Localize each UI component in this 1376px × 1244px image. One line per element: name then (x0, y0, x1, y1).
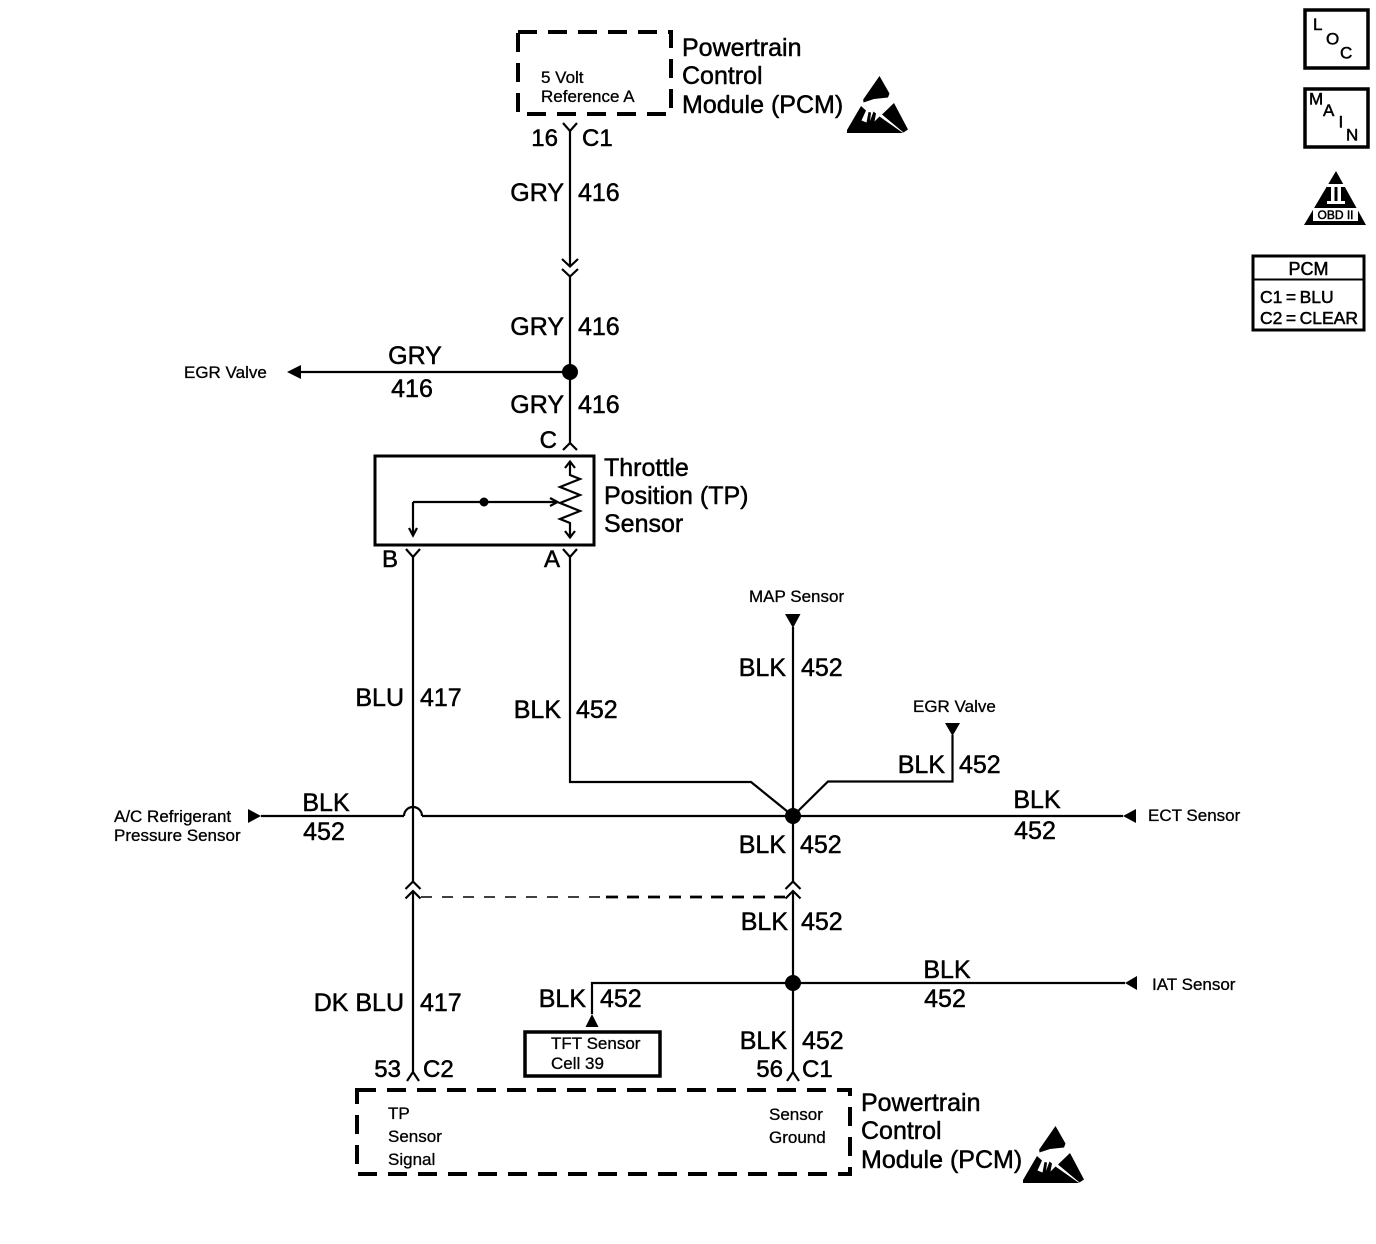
arrow to ECT sensor (1123, 809, 1136, 823)
svg-text:452: 452 (801, 654, 843, 682)
svg-text:416: 416 (578, 313, 620, 341)
svg-text:C2 = CLEAR: C2 = CLEAR (1260, 308, 1358, 328)
label GRY 416 (horizontal) (388, 342, 442, 403)
svg-text:BLU: BLU (355, 684, 404, 712)
svg-text:BLK: BLK (302, 789, 350, 817)
wire BLK 452 from pin A (570, 557, 793, 816)
svg-text:416: 416 (578, 179, 620, 207)
wire break chevrons top (562, 259, 578, 277)
arrow from MAP sensor (785, 614, 801, 628)
svg-text:GRY: GRY (510, 179, 564, 207)
svg-text:Powertrain: Powertrain (682, 34, 802, 62)
svg-text:GRY: GRY (510, 391, 564, 419)
arrow to IAT sensor (1125, 976, 1137, 990)
node: splice junction GRY (562, 364, 578, 380)
wire BLK 452 bus left (261, 815, 404, 817)
svg-text:PCM: PCM (1289, 259, 1329, 279)
svg-text:Ground: Ground (769, 1128, 826, 1147)
wire GRY 416 segment 2 (569, 276, 571, 372)
svg-text:ECT Sensor: ECT Sensor (1148, 806, 1241, 825)
label A/C Refrigerant Pressure Sensor (114, 807, 241, 845)
label BLK 452 (TFT) (539, 985, 642, 1013)
svg-text:Powertrain: Powertrain (861, 1089, 981, 1117)
label BLK 452 (ECT) (1013, 786, 1061, 845)
wire hop over BLU 417 (404, 807, 422, 816)
label BLK 452 (above IAT splice) (741, 908, 843, 936)
svg-text:452: 452 (800, 831, 842, 859)
svg-text:C1: C1 (802, 1056, 833, 1083)
PCM connector legend (1253, 256, 1364, 330)
svg-text:TP: TP (388, 1104, 410, 1123)
svg-text:16: 16 (531, 125, 558, 152)
svg-text:EGR Valve: EGR Valve (184, 363, 267, 382)
svg-text:Position (TP): Position (TP) (604, 482, 748, 510)
svg-text:C1 = BLU: C1 = BLU (1260, 287, 1334, 307)
wire BLK 452 from MAP sensor (792, 627, 794, 816)
svg-text:452: 452 (303, 818, 345, 846)
svg-text:OBD II: OBD II (1317, 208, 1353, 222)
svg-text:O: O (1326, 30, 1339, 49)
label TP Sensor Signal (388, 1104, 442, 1169)
svg-text:Pressure Sensor: Pressure Sensor (114, 826, 241, 845)
TP sensor box (375, 456, 594, 545)
connector pin 16 C1 (531, 123, 612, 152)
wire BLU 417 from pin B (412, 557, 414, 882)
label Throttle Position (TP) Sensor (604, 454, 748, 538)
connector pin 53 C2 (374, 1056, 453, 1083)
label Powertrain Control Module (PCM) bottom (861, 1089, 1022, 1174)
wire BLK 452 to IAT sensor (793, 982, 1125, 984)
svg-text:BLK: BLK (539, 985, 587, 1013)
svg-text:452: 452 (1014, 817, 1056, 845)
svg-text:C: C (1340, 44, 1352, 63)
svg-text:Module (PCM): Module (PCM) (682, 91, 843, 119)
OBD II symbol (1304, 171, 1366, 225)
label BLK 452 (EGR) (898, 751, 1001, 779)
label: Powertrain Control Module (PCM) top (682, 34, 843, 119)
svg-text:Sensor: Sensor (604, 510, 683, 538)
svg-text:MAP Sensor: MAP Sensor (749, 587, 844, 606)
svg-text:A: A (544, 546, 560, 573)
label GRY 416 (1) (510, 179, 619, 207)
svg-text:452: 452 (802, 1027, 844, 1055)
wire GRY 416 segment 3 (569, 372, 571, 443)
connector pin A (544, 546, 577, 573)
label BLK 452 (A/C) (302, 789, 350, 846)
label GRY 416 (3) (510, 391, 619, 419)
svg-text:N: N (1346, 126, 1358, 145)
svg-text:C1: C1 (582, 125, 613, 152)
connector pin C (540, 427, 577, 454)
dashed continuation link (421, 896, 785, 898)
LOC inset box (1305, 10, 1368, 68)
svg-text:416: 416 (391, 375, 433, 403)
svg-text:EGR Valve: EGR Valve (913, 697, 996, 716)
label BLK 452 (IAT) (923, 956, 971, 1013)
svg-text:452: 452 (600, 985, 642, 1013)
svg-text:BLK: BLK (898, 751, 946, 779)
label BLK 452 (pin A wire) (514, 696, 618, 724)
svg-text:452: 452 (959, 751, 1001, 779)
wire BLK 452 down from main splice (792, 816, 794, 882)
wire break chevrons right (786, 882, 801, 899)
label BLK 452 (pin 56) (740, 1027, 844, 1055)
svg-text:Control: Control (861, 1117, 942, 1145)
svg-text:417: 417 (420, 684, 462, 712)
node: main splice (785, 808, 801, 824)
label GRY 416 (2) (510, 313, 619, 341)
svg-text:GRY: GRY (388, 342, 442, 370)
svg-text:53: 53 (374, 1056, 401, 1083)
svg-text:BLK: BLK (740, 1027, 788, 1055)
node: IAT splice (785, 975, 801, 991)
svg-text:452: 452 (576, 696, 618, 724)
svg-text:417: 417 (420, 989, 462, 1017)
svg-text:BLK: BLK (1013, 786, 1061, 814)
svg-text:BLK: BLK (739, 831, 787, 859)
svg-text:BLK: BLK (923, 956, 971, 984)
wire BLK 452 to IAT splice (792, 891, 794, 983)
svg-text:416: 416 (578, 391, 620, 419)
svg-text:452: 452 (801, 908, 843, 936)
svg-text:Throttle: Throttle (604, 454, 689, 482)
svg-text:Reference A: Reference A (541, 87, 635, 106)
svg-text:DK BLU: DK BLU (314, 989, 404, 1017)
TP sensor potentiometer resistor (560, 461, 580, 538)
svg-text:C2: C2 (423, 1056, 454, 1083)
ESD warning symbol bottom (1023, 1126, 1084, 1183)
svg-text:A/C Refrigerant: A/C Refrigerant (114, 807, 231, 826)
TP sensor wiper arrow (409, 498, 558, 536)
svg-text:L: L (1313, 15, 1322, 34)
arrow to EGR valve (287, 365, 301, 379)
label DK BLU 417 (314, 989, 462, 1017)
PCM 5 Volt Reference A box (518, 32, 671, 114)
wire break chevrons left (406, 882, 421, 899)
wire BLK 452 bus right (422, 815, 1123, 817)
svg-text:C: C (540, 427, 557, 454)
svg-text:Cell 39: Cell 39 (551, 1054, 604, 1073)
label Sensor Ground (769, 1105, 826, 1147)
svg-text:B: B (382, 546, 398, 573)
svg-text:56: 56 (756, 1056, 783, 1083)
PCM bottom box (357, 1090, 850, 1174)
svg-text:I: I (1339, 113, 1344, 132)
MAIN inset box (1305, 89, 1368, 147)
svg-text:Signal: Signal (388, 1150, 435, 1169)
svg-text:Module (PCM): Module (PCM) (861, 1146, 1022, 1174)
svg-text:BLK: BLK (739, 654, 787, 682)
wire BLK 452 to pin 56 (792, 983, 794, 1068)
svg-text:TFT Sensor: TFT Sensor (551, 1034, 641, 1053)
wire DK BLU 417 (412, 891, 414, 1068)
label BLK 452 (MAP) (739, 654, 843, 682)
svg-text:Control: Control (682, 62, 763, 90)
arrow from A/C refrigerant pressure sensor (248, 809, 261, 823)
arrow from TFT sensor (586, 1014, 599, 1027)
svg-text:452: 452 (924, 985, 966, 1013)
label BLK 452 (below main splice) (739, 831, 842, 859)
svg-text:A: A (1323, 101, 1335, 120)
TFT Sensor Cell 39 box (525, 1032, 660, 1076)
svg-text:BLK: BLK (514, 696, 562, 724)
ESD warning symbol top (847, 76, 908, 133)
svg-text:IAT Sensor: IAT Sensor (1152, 975, 1236, 994)
svg-text:BLK: BLK (741, 908, 789, 936)
wire BLK 452 to TFT sensor (592, 983, 793, 1014)
svg-text:5 Volt: 5 Volt (541, 68, 584, 87)
connector pin B (382, 546, 420, 573)
label BLU 417 (355, 684, 461, 712)
arrow from EGR valve (945, 723, 960, 736)
wire GRY 416 to EGR valve (299, 371, 570, 373)
svg-text:Sensor: Sensor (388, 1127, 442, 1146)
wire GRY 416 segment 1 (569, 131, 571, 266)
wire BLK 452 from EGR valve (793, 735, 953, 816)
svg-text:Sensor: Sensor (769, 1105, 823, 1124)
svg-text:GRY: GRY (510, 313, 564, 341)
connector pin 56 C1 (756, 1056, 832, 1083)
svg-text:M: M (1309, 90, 1323, 109)
